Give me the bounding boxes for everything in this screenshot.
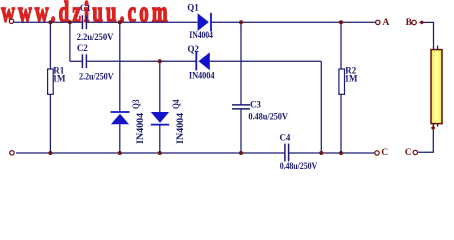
wire second rail right segment	[210, 60, 321, 62]
svg-text:C: C	[381, 148, 388, 158]
node junction top R2	[339, 20, 343, 24]
svg-text:0.48u/250V: 0.48u/250V	[280, 161, 318, 171]
node junction bottom Q4	[158, 151, 162, 155]
wire Q4 branch upper	[159, 61, 161, 112]
diode Q4	[151, 112, 169, 125]
lamp top pins	[434, 46, 438, 50]
svg-text:1M: 1M	[53, 74, 66, 84]
svg-text:Q3: Q3	[131, 99, 141, 109]
node junction top C3	[239, 20, 243, 24]
terminal A	[376, 20, 380, 24]
capacitor C1	[82, 15, 86, 29]
node junction bottom C3	[239, 151, 243, 155]
wire bottom rail left segment	[16, 152, 285, 154]
svg-text:Q2: Q2	[188, 44, 200, 54]
svg-text:IN4004: IN4004	[135, 112, 145, 144]
svg-text:2.2u/250V: 2.2u/250V	[79, 71, 114, 81]
wire lamp top feed	[424, 22, 433, 45]
diode Q3	[111, 112, 130, 124]
arrow at lamp bottom	[431, 126, 436, 131]
terminal input bottom	[10, 151, 14, 155]
svg-text:IN4004: IN4004	[189, 30, 213, 40]
wire bottom rail right segment	[289, 152, 375, 154]
diode Q1	[198, 13, 211, 32]
node junction top C2 drop	[68, 20, 72, 24]
wire second rail left stub	[70, 60, 82, 62]
svg-text:B: B	[406, 18, 413, 28]
wire C3 branch lower	[240, 109, 242, 153]
terminal letters	[381, 18, 412, 158]
wire R2 branch upper	[340, 22, 342, 69]
arrow at B	[419, 20, 425, 24]
wire top rail right segment	[211, 21, 375, 23]
wire lamp bottom feed	[418, 129, 433, 153]
svg-text:1M: 1M	[345, 74, 358, 84]
diode Q2	[196, 52, 210, 70]
node junction top Q3	[118, 20, 122, 24]
svg-text:C4: C4	[280, 133, 291, 143]
terminal B lamp	[412, 20, 416, 24]
wire top rail middle segment	[87, 21, 198, 23]
svg-text:C2: C2	[77, 43, 88, 53]
svg-text:A: A	[383, 18, 390, 28]
node junction bottom return	[319, 151, 323, 155]
resistor R2	[339, 69, 345, 94]
node junction bottom R1	[48, 151, 52, 155]
svg-text:IN4004: IN4004	[189, 71, 215, 81]
node junction bottom Q3	[118, 151, 122, 155]
svg-text:C1: C1	[80, 3, 91, 13]
svg-text:Q1: Q1	[187, 3, 199, 13]
wire Q3 branch lower	[119, 124, 121, 153]
svg-text:0.48u/250V: 0.48u/250V	[248, 111, 288, 121]
wire R2 branch lower	[340, 94, 342, 153]
wire top rail left segment	[14, 21, 82, 23]
lamp tube	[431, 50, 442, 124]
node junction top R1	[48, 20, 52, 24]
resistor R1	[48, 69, 54, 94]
wire C3 branch upper	[240, 22, 242, 104]
svg-text:Q4: Q4	[171, 99, 181, 109]
node junction bottom R2	[339, 151, 343, 155]
terminal C lamp	[413, 150, 417, 154]
wire R1 branch lower	[49, 94, 51, 153]
svg-text:C: C	[405, 148, 412, 158]
svg-text:2.2u/250V: 2.2u/250V	[77, 32, 114, 42]
terminal C circuit	[375, 151, 379, 155]
wire second rail middle segment	[87, 60, 196, 62]
capacitor C3	[232, 105, 250, 109]
wire Q3 branch upper	[119, 22, 121, 111]
wire C2 drop from top rail	[69, 22, 71, 61]
svg-text:C3: C3	[250, 100, 261, 110]
capacitor C2	[82, 54, 86, 68]
lamp bottom pins	[433, 124, 437, 128]
wire R1 branch upper	[49, 22, 51, 69]
svg-text:IN4004: IN4004	[175, 112, 185, 144]
node junction rail2 Q4	[158, 59, 162, 63]
terminal input top	[9, 19, 13, 23]
wire right return branch	[320, 61, 322, 153]
wire Q4 branch lower	[159, 125, 161, 153]
capacitor C4	[285, 144, 289, 162]
